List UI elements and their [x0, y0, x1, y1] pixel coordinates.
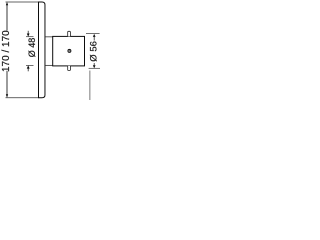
- dia48 arrow up: [27, 65, 30, 68]
- dia48 extension stub bottom: [26, 64, 34, 66]
- sleeve top line: [45, 36, 53, 38]
- cropped view edge line bottom right: [89, 71, 91, 101]
- handle body: [53, 36, 85, 66]
- sleeve bottom line: [45, 64, 53, 66]
- dia56 extension line top: [86, 33, 100, 35]
- dia56 arrow up: [93, 34, 96, 37]
- dia48 arrow down: [27, 33, 30, 36]
- svg-text:Ø 56: Ø 56: [88, 41, 99, 62]
- escutcheon plate side view: [39, 2, 46, 98]
- dia56 arrow down: [93, 65, 96, 68]
- dia56 extension line bottom: [89, 67, 100, 69]
- arrow up 170 dim: [6, 2, 8, 5]
- bottom tab button: [68, 66, 71, 71]
- dimension line 170/170 upper segment: [6, 5, 8, 31]
- screw circle: [68, 49, 71, 52]
- screw center dot: [69, 50, 70, 51]
- dia56 dim line segment: [93, 37, 95, 41]
- dia56 dim line segment lower: [93, 63, 95, 66]
- top tab button: [68, 31, 71, 36]
- svg-text:Ø 48: Ø 48: [27, 38, 37, 58]
- arrow down 170 dim: [6, 94, 8, 97]
- dia48 extension stub top: [26, 36, 34, 38]
- dia48 tail bottom: [27, 68, 29, 71]
- dimension line 170/170 lower segment: [6, 71, 8, 95]
- plate right edge emphasis: [44, 4, 46, 97]
- extension line bottom: [6, 97, 39, 99]
- svg-text:170 / 170: 170 / 170: [1, 30, 12, 72]
- extension line top: [6, 1, 39, 3]
- dia48 tail top: [27, 31, 29, 34]
